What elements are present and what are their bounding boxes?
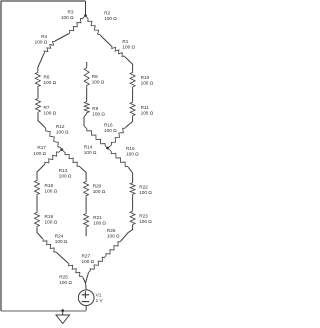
resistor R15 bbox=[108, 148, 129, 167]
wire R23-R26 bbox=[121, 226, 133, 242]
wire node-V1 bbox=[85, 283, 88, 290]
resistor R14 bbox=[84, 126, 108, 148]
wire R9-R14 bbox=[84, 114, 87, 127]
wire R2-R1 bbox=[101, 36, 112, 47]
svg-text:R24100 Ω: R24100 Ω bbox=[55, 234, 68, 245]
svg-text:R19100 Ω: R19100 Ω bbox=[45, 214, 58, 225]
voltage source V1 bbox=[78, 290, 94, 306]
wire mid stub bottom bbox=[85, 228, 87, 236]
svg-text:V11 V: V11 V bbox=[96, 293, 104, 304]
resistor R26 bbox=[105, 241, 121, 257]
wire R19-R24 bbox=[37, 228, 43, 239]
resistor R13 bbox=[62, 150, 80, 168]
wire R25-node bbox=[83, 278, 86, 284]
resistor R18 bbox=[35, 179, 40, 196]
resistor R27 bbox=[89, 257, 106, 273]
wire left rail bbox=[0, 1, 2, 311]
resistor R17 bbox=[44, 150, 62, 166]
wire R11-R16 bbox=[126, 117, 133, 127]
svg-text:R9100 Ω: R9100 Ω bbox=[92, 106, 105, 117]
svg-text:R11100 Ω: R11100 Ω bbox=[141, 105, 153, 116]
resistor R16 bbox=[110, 127, 126, 146]
resistor R24 bbox=[43, 239, 57, 253]
wire R10-R11 bbox=[132, 88, 134, 101]
wire top rail bbox=[1, 0, 86, 2]
wire R3-R4 bbox=[55, 34, 69, 42]
resistor R19 bbox=[35, 211, 40, 228]
resistor R20 bbox=[84, 180, 89, 197]
resistor R11 bbox=[130, 101, 135, 117]
resistor R23 bbox=[130, 210, 135, 225]
svg-text:R15100 Ω: R15100 Ω bbox=[126, 146, 139, 157]
wire R16-nodeB bbox=[108, 147, 111, 149]
wire R15-R22 bbox=[129, 167, 133, 182]
resistor R6 bbox=[35, 71, 40, 88]
svg-text:R17100 Ω: R17100 Ω bbox=[33, 145, 46, 156]
svg-text:R18100 Ω: R18100 Ω bbox=[45, 183, 58, 194]
svg-text:R7100 Ω: R7100 Ω bbox=[44, 105, 57, 116]
wire R8-R9 bbox=[86, 87, 88, 101]
svg-text:R26100 Ω: R26100 Ω bbox=[107, 228, 120, 239]
svg-text:R3100 Ω: R3100 Ω bbox=[61, 10, 74, 21]
wire bottom rail bbox=[1, 310, 86, 312]
wire top stub bbox=[85, 1, 87, 16]
wire R27-node bbox=[86, 273, 89, 284]
svg-text:R25100 Ω: R25100 Ω bbox=[59, 275, 72, 286]
ground bbox=[56, 311, 70, 324]
svg-text:R21100 Ω: R21100 Ω bbox=[93, 215, 106, 226]
resistor R25 bbox=[68, 263, 83, 278]
node top bbox=[84, 14, 87, 17]
wire mid stub top bbox=[86, 62, 88, 66]
node B bbox=[106, 147, 109, 150]
resistor R8 bbox=[84, 66, 89, 87]
svg-text:R2100 Ω: R2100 Ω bbox=[104, 10, 117, 21]
svg-text:R20100 Ω: R20100 Ω bbox=[93, 183, 106, 194]
svg-text:R4100 Ω: R4100 Ω bbox=[35, 34, 48, 45]
wire R13-R20 bbox=[80, 167, 86, 180]
wire R18-R19 bbox=[36, 196, 38, 211]
wire R1-R10 bbox=[125, 57, 133, 72]
wire R22-R23 bbox=[132, 195, 134, 210]
wire V1-rail bbox=[85, 306, 87, 311]
svg-text:R8100 Ω: R8100 Ω bbox=[92, 74, 105, 85]
resistor R9 bbox=[84, 101, 89, 114]
wire R4-R6 bbox=[38, 54, 44, 72]
svg-text:R22100 Ω: R22100 Ω bbox=[139, 184, 152, 195]
svg-text:R13100 Ω: R13100 Ω bbox=[59, 168, 72, 179]
svg-text:R6100 Ω: R6100 Ω bbox=[44, 74, 57, 85]
resistor R1 bbox=[111, 46, 124, 57]
svg-text:R14100 Ω: R14100 Ω bbox=[84, 145, 97, 156]
svg-text:R23100 Ω: R23100 Ω bbox=[139, 214, 152, 225]
junction ground bbox=[61, 309, 64, 312]
svg-text:R1100 Ω: R1100 Ω bbox=[122, 39, 135, 50]
svg-text:R12100 Ω: R12100 Ω bbox=[56, 124, 69, 135]
wire R20-R21 bbox=[85, 197, 87, 212]
resistor R22 bbox=[130, 182, 135, 195]
svg-text:R27100 Ω: R27100 Ω bbox=[82, 253, 95, 264]
wire R17-R18 bbox=[37, 165, 44, 179]
resistor R2 bbox=[86, 16, 101, 36]
resistor R7 bbox=[36, 97, 41, 114]
wire R24-R25 bbox=[57, 253, 69, 264]
resistor R3 bbox=[69, 16, 86, 34]
wire R7-R12 bbox=[38, 114, 45, 128]
svg-text:R10100 Ω: R10100 Ω bbox=[141, 75, 153, 86]
resistor R4 bbox=[44, 41, 55, 54]
resistor R12 bbox=[45, 128, 62, 150]
wire R6-R7 bbox=[37, 88, 39, 97]
resistor R21 bbox=[84, 212, 89, 228]
node A bbox=[61, 148, 64, 151]
svg-text:R16100 Ω: R16100 Ω bbox=[104, 122, 117, 133]
resistor R10 bbox=[130, 71, 135, 88]
